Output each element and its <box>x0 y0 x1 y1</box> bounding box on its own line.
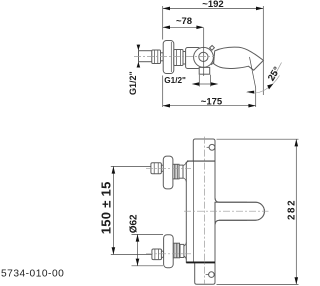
svg-text:282: 282 <box>287 199 298 220</box>
svg-text:~192: ~192 <box>202 0 223 10</box>
svg-text:G1/2": G1/2" <box>128 71 138 95</box>
svg-text:5734-010-00: 5734-010-00 <box>1 268 64 279</box>
svg-text:Ø62: Ø62 <box>128 214 139 233</box>
svg-text:150 ± 15: 150 ± 15 <box>98 181 113 234</box>
svg-text:G1/2": G1/2" <box>164 76 186 85</box>
svg-text:~175: ~175 <box>201 96 223 107</box>
svg-text:~78: ~78 <box>176 16 192 27</box>
